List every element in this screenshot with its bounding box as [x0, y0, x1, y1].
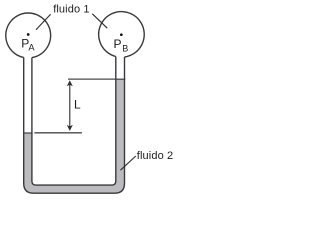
pointer line fluido1 to bulb B — [92, 14, 107, 28]
svg-text:fluido 1: fluido 1 — [53, 3, 89, 15]
right meniscus line — [115, 78, 125, 80]
dimension bottom line — [34, 132, 82, 134]
bulb A circle — [6, 13, 51, 58]
dimension top line — [68, 78, 116, 80]
center dot B — [120, 33, 123, 36]
pointer line fluido2 to tube — [120, 156, 135, 170]
svg-text:L: L — [74, 98, 81, 112]
tube inner wall — [32, 57, 116, 186]
pointer line fluido1 to bulb A — [36, 14, 51, 30]
arrowhead down — [67, 125, 73, 131]
tube outer wall — [24, 57, 125, 193]
svg-text:P: P — [114, 37, 122, 51]
dimension arrow shaft — [69, 84, 71, 128]
fluid 2 gray fill in U-tube — [24, 79, 125, 193]
arrowhead up — [67, 80, 73, 86]
center dot A — [27, 33, 30, 36]
bulb B circle — [99, 12, 145, 57]
left meniscus line — [23, 132, 33, 134]
svg-text:B: B — [122, 43, 128, 53]
svg-text:A: A — [28, 42, 35, 52]
svg-text:fluido 2: fluido 2 — [137, 150, 173, 162]
